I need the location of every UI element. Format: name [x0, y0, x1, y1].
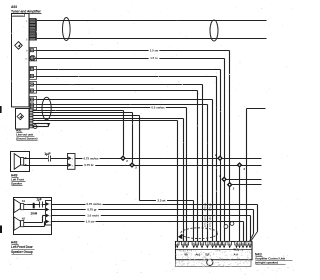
wire: G3 pin1 right then down: [37, 84, 203, 86]
inline connector 2 on speaker -: [129, 162, 135, 168]
wire label 0.75 gr: [86, 207, 99, 212]
svg-text:Speaker: Speaker: [11, 182, 23, 186]
inline connector 2 on vertical from G1a: [227, 182, 233, 188]
svg-text:1.0 sw/rt: 1.0 sw/rt: [87, 214, 99, 218]
crossover capacitor 1uF: [24, 198, 46, 209]
scan mark left edge 2: [0, 226, 2, 234]
wire label 1.5 sw: [149, 48, 160, 53]
cable grommet oval 1: [63, 18, 71, 41]
wire label 1.0 sw/rt: [85, 213, 101, 218]
amplifier control unit N4/3 box: [176, 242, 253, 260]
wire: G4 pin1 right then down: [37, 99, 213, 101]
svg-text:0.5 sw/ws: 0.5 sw/ws: [151, 106, 165, 110]
connector group G2: [30, 67, 37, 80]
ring terminal on G1 lower pin: [30, 55, 35, 60]
inline connector 2 on speaker +: [120, 155, 126, 161]
svg-text:1.0 sw: 1.0 sw: [86, 220, 95, 224]
wire label 0.75 br: [83, 163, 96, 168]
mounting circle: [207, 259, 213, 265]
wire h1 minus: [24, 209, 46, 211]
wire 0.75 sw/ws door pin1: [52, 204, 258, 206]
svg-text:1mH: 1mH: [30, 211, 38, 215]
svg-text:0.75 sw/ws: 0.75 sw/ws: [84, 156, 99, 160]
wire label 0.5 sw/ws: [150, 105, 166, 110]
wire 1.0 sw door pin4: [52, 221, 244, 223]
dashed harness ellipse: [181, 228, 218, 239]
line-out unit A91 box: [16, 109, 30, 130]
wire from speaker +: [24, 158, 68, 160]
svg-text:0.5 gn/bl: 0.5 gn/bl: [208, 216, 212, 227]
wire 1.5 ro: G1 pin2 right then down: [37, 58, 225, 60]
wire label 2.5 wt: [156, 198, 167, 203]
wire from speaker -: [24, 165, 68, 167]
svg-text:H4/3: H4/3: [11, 241, 18, 245]
door tweeter h1: [14, 199, 25, 213]
amplifier pin strip inner line: [176, 249, 252, 251]
connector rings above amplifier: [224, 225, 228, 229]
cable grommet oval 2: [210, 20, 218, 41]
label A91 Line-out unit (Sound System): [16, 128, 38, 140]
inline connector 2b on speaker - with drop: [237, 162, 243, 168]
4-pin connector of door group: [46, 201, 52, 226]
svg-text:0.5 gn: 0.5 gn: [208, 203, 212, 211]
svg-text:2.5 wt: 2.5 wt: [157, 198, 165, 202]
wire: A91 pin1 to the right (cut off) with branch down: [33, 118, 184, 120]
capacitor 1uF on speaker wire: [44, 152, 51, 161]
connector group G4: [30, 97, 37, 110]
wire label 0.75 sw/ws door: [85, 202, 102, 207]
8-pin hatched connector on A93: [30, 18, 37, 40]
svg-text:1µF: 1µF: [44, 152, 51, 156]
wire 2.5 wt: A91 pin4 down-over-down to amplifier: [33, 115, 140, 117]
wire: G4 pin2 right then down: [37, 104, 208, 106]
wire label 0.75 sw/ws: [82, 156, 99, 161]
svg-text:1µF: 1µF: [36, 198, 42, 202]
wire: G3 pin2 right then down: [37, 90, 198, 92]
ring terminal on A91 ground pin: [33, 125, 37, 129]
wire: right speaker feed (cut off) down to amplifier: [247, 108, 266, 110]
symbol inside A91: [17, 113, 23, 119]
svg-text:6A: 6A: [185, 253, 188, 257]
amplifier pin row: [176, 241, 252, 248]
connector group G1 (power pins): [30, 48, 37, 61]
label A93 Tuner and Amplifier: [11, 5, 42, 13]
wire 0.75 br speaker - continue: [75, 165, 262, 167]
wire label 1.0 sw: [84, 219, 95, 224]
A91 connector pins: [30, 109, 33, 112]
grommet oval 3 at A91: [42, 97, 51, 120]
wire 0.75 gr door pin2: [52, 209, 254, 211]
wire: A91 pin2 down to speaker1 + inline connector: [33, 110, 124, 112]
inner header box of A93: [12, 14, 25, 17]
inline connector 2 on vertical from G1b: [221, 176, 227, 182]
wire: A91 pin2 right then down: [33, 120, 178, 122]
arrow tip at dashed ellipse left end: [178, 234, 182, 239]
speaker symbol: [14, 154, 24, 170]
wire: A91 ground loop: [33, 123, 49, 125]
amplifier internal labels: [178, 249, 244, 257]
speaker pins: [25, 157, 27, 159]
svg-text:h2: h2: [22, 217, 26, 221]
wire: G2 pin2 right then down: [37, 76, 217, 78]
left front door speaker group box: [14, 198, 52, 235]
wire: cable top (to antenna, cut off): [37, 20, 267, 22]
wire: cable bottom (cut off): [37, 38, 267, 40]
scan noise inside amplifier: [176, 250, 250, 267]
svg-text:0.5 ws: 0.5 ws: [203, 202, 207, 211]
wire 1.0 sw/rt door pin3: [52, 215, 251, 217]
label H4/9 Left Front Speaker: [11, 173, 26, 185]
wire label 1.5 ro: [149, 56, 160, 61]
connector group G3: [30, 82, 37, 94]
svg-text:Speaker Group: Speaker Group: [11, 250, 33, 254]
svg-text:A-A: A-A: [234, 253, 239, 257]
2-pin connector at speaker: [68, 154, 76, 170]
wire 1.5 sw: G1 pin1 right then down to amplifier: [37, 50, 230, 52]
svg-text:(w/right speaker): (w/right speaker): [255, 260, 278, 264]
svg-text:A93: A93: [11, 5, 17, 9]
svg-text:0.75 sw/ws: 0.75 sw/ws: [87, 202, 102, 206]
junction triangle at A91 ground loop: [47, 123, 51, 126]
wire: A91 pin3 down to speaker1 - inline connector: [33, 112, 133, 114]
svg-text:1.5 ro: 1.5 ro: [150, 56, 158, 60]
wire 0.5 sw/ws: G4 pin3 right then down: [37, 107, 187, 109]
svg-text:Left Front Door: Left Front Door: [11, 245, 34, 249]
wire 0.75 sw/ws speaker + continue: [75, 158, 262, 160]
svg-text:(Sound System): (Sound System): [16, 137, 38, 141]
symbol (arrow diamond) inside A93: [15, 42, 23, 50]
tuner/amplifier unit A93: [12, 14, 30, 107]
left front speaker H4/9 box: [11, 152, 30, 172]
svg-text:EjF: EjF: [206, 253, 210, 257]
svg-text:Av1: Av1: [196, 253, 201, 257]
svg-text:0.75 br: 0.75 br: [84, 163, 94, 167]
svg-text:h1: h1: [22, 199, 26, 203]
inline connector 2 on vertical from G2: [217, 155, 223, 161]
wire: G2 pin1 right then down: [37, 69, 221, 71]
svg-text:1.5 sw: 1.5 sw: [150, 48, 159, 52]
amplifier lower mounting strip: [176, 260, 252, 267]
label N4/3 Amplifier Control Unit: [255, 252, 293, 264]
crossover inductor 1mH: [24, 211, 46, 222]
label H4/3 Left Front Door Speaker Group: [11, 241, 35, 255]
svg-text:0.5 ws/rt: 0.5 ws/rt: [203, 216, 207, 227]
scan mark left edge 1: [0, 106, 2, 113]
door woofer h2: [14, 217, 25, 231]
svg-text:− + − + − + − +: − + − + − + − +: [178, 250, 193, 253]
wire h2 minus: [24, 226, 45, 228]
svg-text:0.75 gr: 0.75 gr: [87, 208, 97, 212]
